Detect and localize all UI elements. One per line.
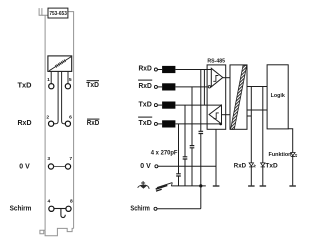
wire RxD row (175, 69, 211, 71)
RS-485 transceiver box (207, 65, 226, 129)
svg-text:5: 5 (69, 77, 72, 83)
wire TxD row (175, 104, 221, 106)
functional earth symbol (156, 183, 173, 192)
wire pins 2,6 from symbol box (54, 71, 58, 123)
interface symbol box with hatched diagonal (48, 56, 72, 72)
inversion bubble receiver (208, 86, 210, 88)
terminal circles row 1 (pins 1,5) (48, 84, 71, 212)
middle label RxD-inverted (pin 6) (87, 118, 100, 127)
ground bar RS-485 (213, 185, 220, 187)
tie wire RxD to TxD (203, 70, 205, 106)
circuit row TxD (139, 99, 222, 108)
capacitor branch from TxD-inverted (176, 124, 181, 186)
svg-text:RS-485: RS-485 (207, 59, 225, 65)
wire pin 5 stub (67, 71, 69, 83)
circuit row TxD-inverted (138, 117, 222, 128)
terminal circles row 2 (pins 2,6) (49, 121, 54, 126)
svg-text:RxD: RxD (234, 162, 246, 169)
svg-text:0 V: 0 V (19, 161, 30, 170)
svg-text:8: 8 (70, 199, 73, 205)
galvanic isolation box (230, 65, 247, 129)
wire isolation TxD tap (247, 115, 251, 117)
ground bar LED RxD (248, 185, 255, 187)
terminal circles row 3 (pins 3,7) (48, 164, 53, 169)
wire pin 1 stub (50, 71, 52, 83)
op-amp driver U2 (209, 105, 230, 124)
module 753-653 body outline (42, 12, 74, 231)
Schirm terminal (circuit side) (130, 186, 200, 213)
earth rail (171, 185, 206, 187)
svg-text:RxD: RxD (18, 118, 32, 127)
ground bar LED TxD (260, 185, 267, 187)
wire driver input (222, 114, 231, 116)
middle label TxD-inverted (pin 5) (86, 80, 99, 89)
svg-text:Schirm: Schirm (130, 204, 149, 213)
svg-text:3: 3 (47, 156, 50, 162)
module top locking tab (39, 8, 42, 15)
circuit row RxD: label, terminal, filter (139, 64, 212, 73)
svg-text:1: 1 (47, 77, 50, 83)
LED RxD wire (250, 110, 252, 185)
svg-text:TxD: TxD (18, 80, 32, 89)
svg-text:TxD: TxD (139, 118, 153, 127)
circuit row RxD-inverted (138, 80, 208, 91)
svg-text:RxD: RxD (139, 81, 153, 90)
svg-text:0 V: 0 V (140, 161, 151, 170)
RS-485 ground stub (215, 129, 217, 185)
LED Funktion symbol (291, 153, 297, 157)
LED TxD wire (262, 110, 264, 185)
wire receiver output (223, 77, 230, 79)
pin numbers (46, 77, 73, 205)
converter box (251, 87, 262, 111)
svg-text:753-653: 753-653 (49, 11, 67, 17)
LED TxD symbol (261, 163, 265, 167)
svg-text:TxD: TxD (139, 99, 153, 108)
svg-text:Logik: Logik (271, 93, 286, 99)
jumper wire pins 3-7 (54, 166, 66, 168)
svg-text:2: 2 (46, 114, 49, 120)
module DIN-rail latch foot (left) (40, 230, 45, 234)
module bottom foot profile (45, 228, 74, 235)
wire isolation to Logik upper (247, 86, 267, 88)
svg-text:Funktion: Funktion (269, 152, 293, 158)
ground bar Funktion (289, 185, 296, 187)
Funktion LED wire (288, 129, 293, 186)
svg-text:6: 6 (69, 114, 72, 120)
Logik box (267, 65, 288, 129)
capacitor branch from RxD (199, 70, 204, 186)
module order-number box 753-653 (48, 8, 68, 18)
wire 0V row (158, 165, 216, 167)
capacitor branch from RxD-inverted (190, 87, 195, 186)
svg-text:4 x 270pF: 4 x 270pF (151, 149, 178, 156)
functional-earth pictogram below 0 V (138, 181, 150, 189)
terminal circles row 4 (pins 4,8) (49, 206, 54, 211)
LED RxD symbol (249, 163, 256, 167)
junction dot TxD-inverted / driver (219, 123, 222, 126)
svg-text:TxD: TxD (265, 162, 277, 169)
svg-text:Schirm: Schirm (10, 203, 32, 212)
capacitor branch from TxD (183, 105, 188, 186)
svg-text:4: 4 (48, 199, 51, 205)
wire RxD-inverted row (175, 86, 207, 88)
wire TxD-inverted row (175, 123, 220, 125)
junction dot rail (199, 184, 202, 187)
jumper wire pins 4-8 with shield hook (54, 209, 66, 218)
svg-text:RxD: RxD (139, 64, 153, 73)
isolation hatched band (231, 66, 247, 130)
0 V terminal (circuit side) (140, 161, 216, 170)
wire isolation to Logik lower (247, 109, 267, 111)
svg-text:7: 7 (69, 156, 72, 162)
wire Schirm to rail junction (157, 186, 201, 209)
op-amp receiver U1 (208, 68, 230, 88)
